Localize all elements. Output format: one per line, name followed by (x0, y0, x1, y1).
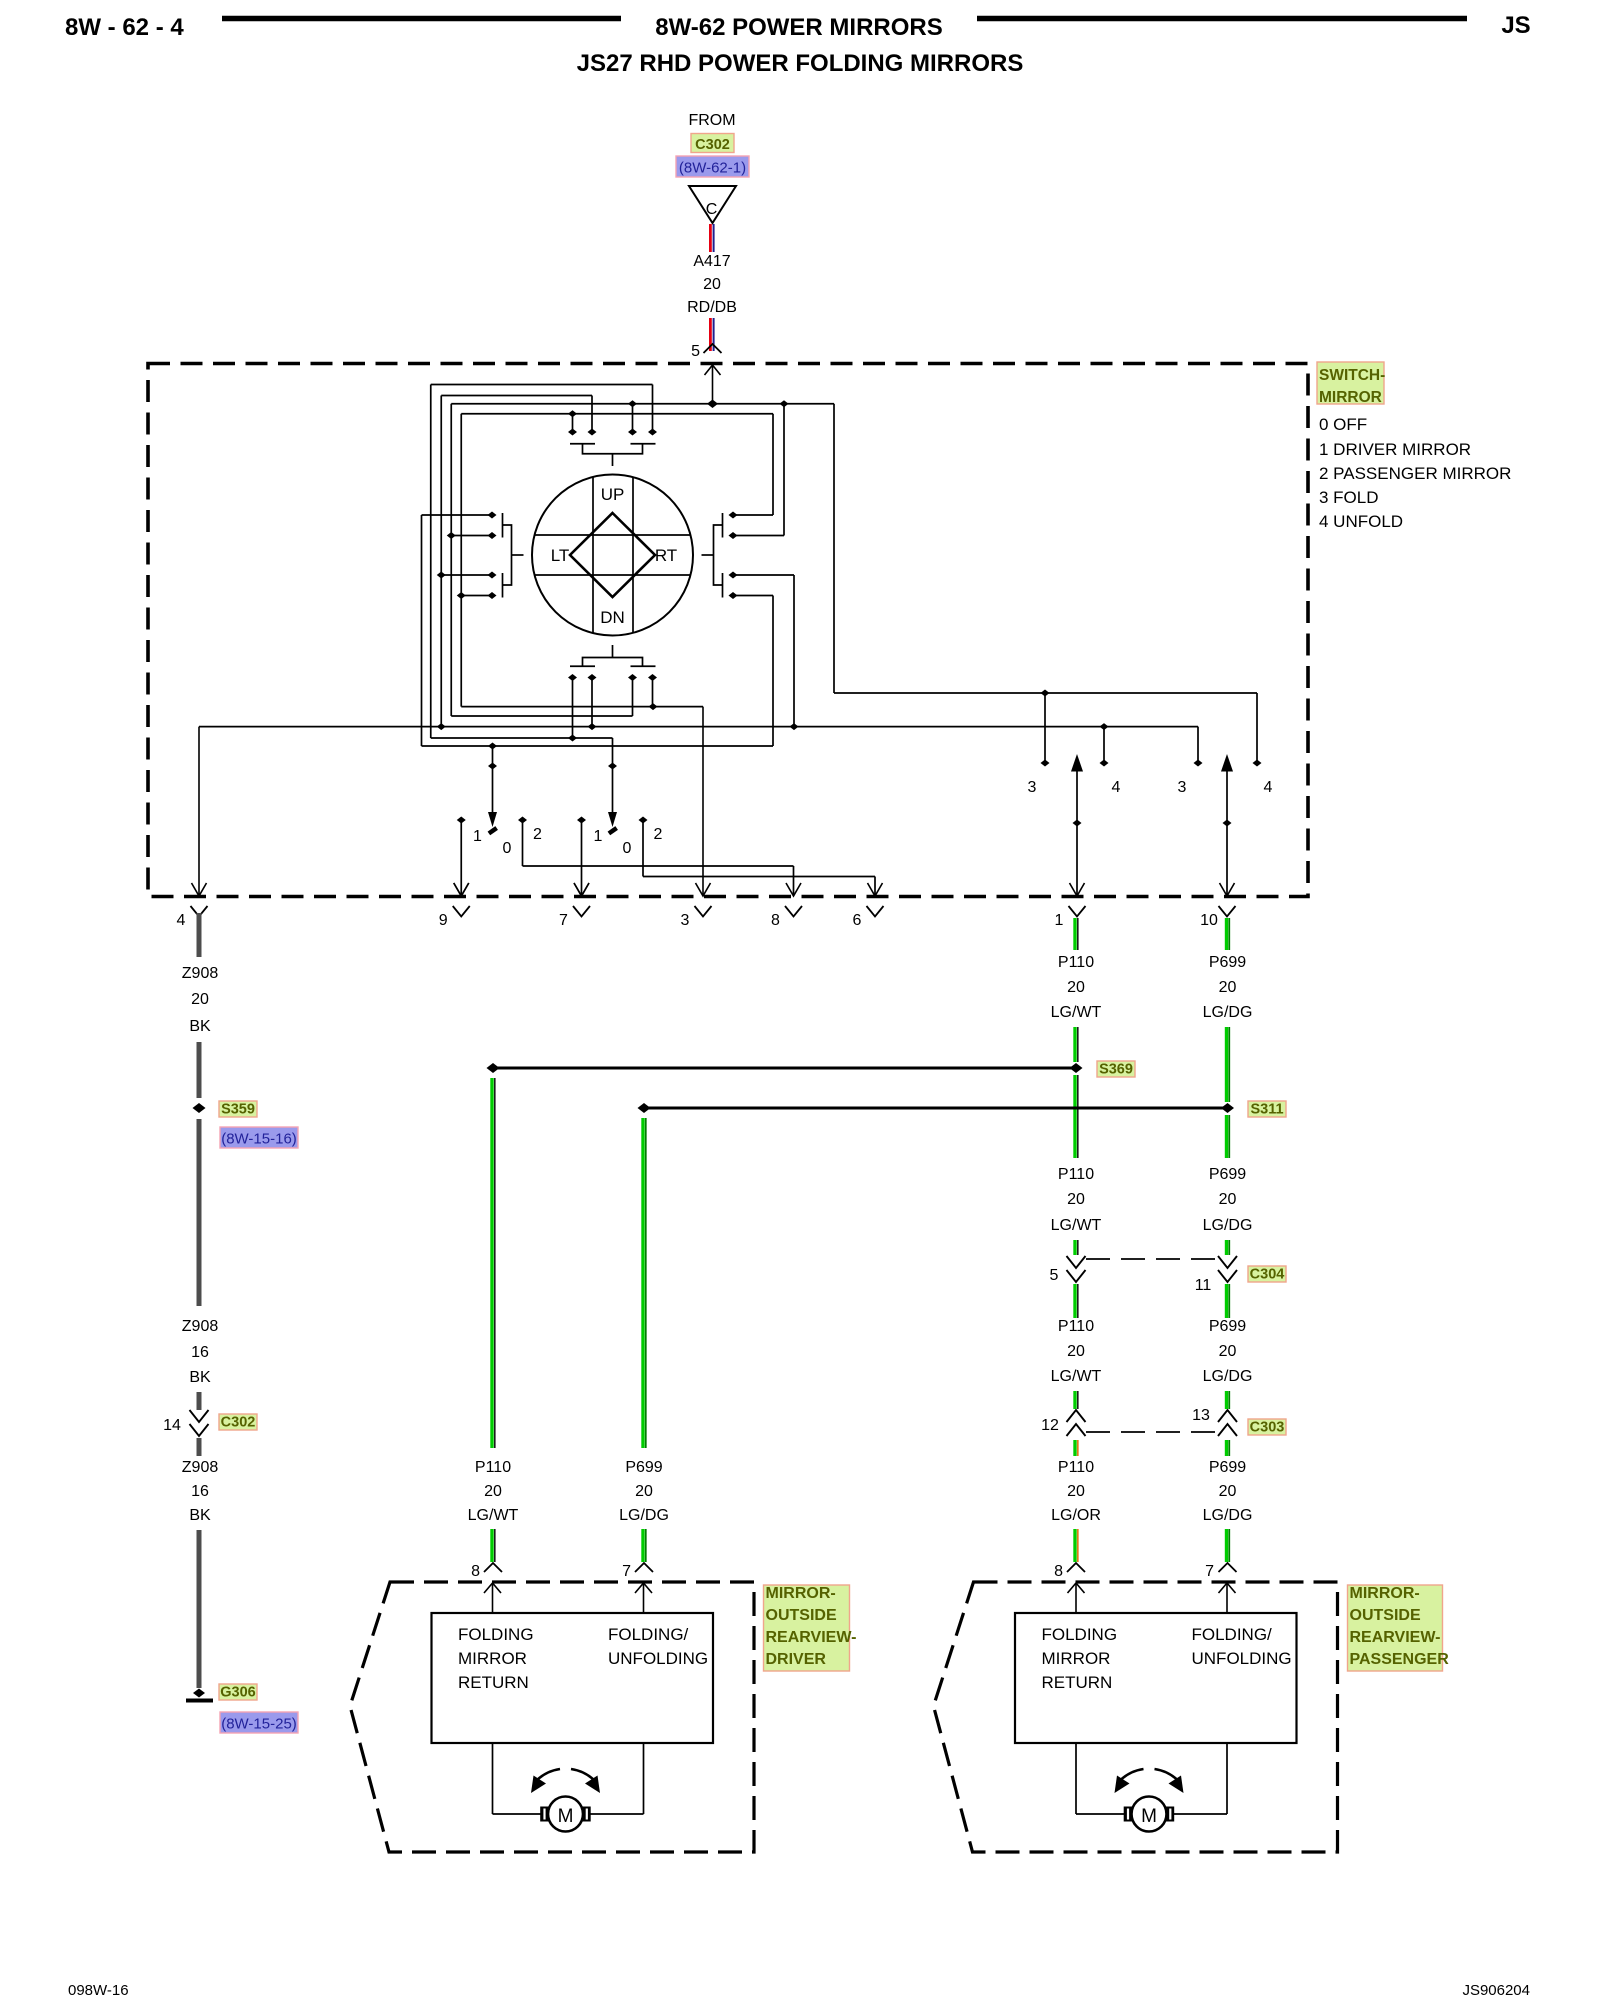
svg-text:LT: LT (551, 546, 570, 565)
wire P699 LG/DG from pin 10 (1225, 918, 1228, 950)
connector C304 pin 5 (1050, 1256, 1086, 1284)
splice bus S311 horizontal (644, 1107, 1228, 1110)
svg-text:S369: S369 (1099, 1062, 1133, 1078)
driver mirror pin 7 connector (622, 1563, 653, 1580)
connector C303 link (1086, 1431, 1218, 1433)
left select contact 2 wire to pin 8 (522, 820, 524, 866)
left select wiper arrow (488, 743, 498, 836)
svg-text:MIRROR-: MIRROR- (1350, 1585, 1420, 1602)
passenger mirror pin 7 connector (1205, 1563, 1236, 1580)
splice S369 branch node (487, 1063, 500, 1073)
wire Z908 16 BK segment 5 (197, 1438, 202, 1456)
fold contact 3 stub A (1044, 693, 1046, 762)
switch pin 6 connector (853, 906, 884, 929)
svg-text:16: 16 (191, 1344, 209, 1361)
wire P110 LG/WT segment 6 (1073, 1391, 1076, 1409)
svg-text:LG/DG: LG/DG (1203, 1507, 1253, 1524)
wire RT vertical upper (772, 414, 774, 515)
svg-text:20: 20 (635, 1483, 653, 1500)
wire RT vertical lower (772, 596, 774, 747)
svg-text:LG/DG: LG/DG (1203, 1004, 1253, 1021)
wire P699 LG/DG lower segment (1225, 1529, 1228, 1562)
wire bus C top (451, 403, 834, 405)
left select contact 1 / pin 9 wire (460, 820, 462, 896)
svg-text:2: 2 (533, 826, 542, 843)
driver mirror pin 8 connector (471, 1563, 502, 1580)
wire fold bus from bus C (833, 404, 835, 693)
wire P699 LG/DG segment 6 (1225, 1391, 1228, 1409)
svg-text:20: 20 (703, 276, 721, 293)
svg-text:20: 20 (1067, 1483, 1085, 1500)
wire Z908 16 BK segment 3 (197, 1119, 202, 1306)
splice S359 (193, 1103, 206, 1113)
fold position labels 3 4 3 4 (1028, 779, 1273, 796)
passenger motor supply wires (1076, 1743, 1227, 1814)
DN contact actuator and gate bars (570, 645, 656, 666)
splice label S359 (219, 1101, 257, 1117)
svg-text:9: 9 (439, 912, 448, 929)
svg-text:BK: BK (189, 1369, 211, 1386)
wire Z908 20 BK segment 2 (197, 1042, 202, 1098)
wire H5 (422, 745, 774, 747)
svg-text:BK: BK (189, 1018, 211, 1035)
splice bus S369 horizontal (493, 1067, 1076, 1070)
splice label S311 (1248, 1101, 1286, 1117)
svg-text:C304: C304 (1250, 1267, 1285, 1283)
pin 4 exit arrow (198, 727, 200, 896)
svg-text:P699: P699 (1209, 1318, 1246, 1335)
wire P110 LG/WT segment 3 (1073, 1075, 1076, 1158)
svg-text:LG/OR: LG/OR (1051, 1507, 1101, 1524)
wire P110 LG/WT driver lower segment (490, 1529, 493, 1562)
wire P110 LG/OR segment (1073, 1440, 1076, 1456)
svg-text:7: 7 (1205, 1563, 1214, 1580)
switch contact DN stub 4 (652, 676, 654, 707)
passenger folding module box (1015, 1613, 1297, 1743)
svg-text:4: 4 (1264, 779, 1273, 796)
svg-text:20: 20 (1067, 1191, 1085, 1208)
svg-text:8: 8 (471, 1563, 480, 1580)
driver mirror pin 7 entry arrow (643, 1583, 645, 1613)
fold wiper arrow pin 1 (1071, 754, 1083, 897)
svg-text:098W-16: 098W-16 (68, 1982, 129, 1999)
switch contact DN stub 3 (632, 676, 634, 716)
svg-text:MIRROR: MIRROR (1042, 1649, 1111, 1668)
svg-text:M: M (558, 1806, 574, 1827)
wire P110 LG/WT segment 2 (1073, 1027, 1076, 1062)
svg-text:5: 5 (1050, 1267, 1059, 1284)
svg-text:FOLDING/: FOLDING/ (1192, 1625, 1273, 1644)
wire RT vertical to H3 (793, 575, 795, 727)
svg-text:S359: S359 (221, 1102, 255, 1118)
switch contact UP stub 2 (591, 396, 593, 434)
knob diamond (570, 513, 655, 597)
passenger mirror pin 8 entry arrow (1075, 1583, 1077, 1613)
svg-text:FOLDING: FOLDING (458, 1625, 534, 1644)
wire bus B left vertical (440, 396, 442, 727)
svg-text:1: 1 (1055, 912, 1064, 929)
wire bus D top (461, 413, 773, 415)
wire H3 to pin 4 (199, 726, 1198, 728)
svg-text:1: 1 (473, 828, 482, 845)
fold wiper arrow pin 10 (1221, 754, 1233, 897)
passenger module text FOLDING/UNFOLDING (1192, 1625, 1292, 1668)
svg-text:20: 20 (1219, 1343, 1237, 1360)
svg-text:20: 20 (1219, 1483, 1237, 1500)
switch contact RT stub 1 (733, 514, 773, 516)
svg-text:REARVIEW-: REARVIEW- (766, 1629, 857, 1646)
svg-text:BK: BK (189, 1507, 211, 1524)
switch pin 1 connector (1055, 906, 1086, 929)
svg-text:RT: RT (655, 546, 677, 565)
switch contact RT stub 3 (733, 574, 794, 576)
switch pin 9 connector (439, 906, 470, 929)
wire RT vertical to bus C (783, 404, 785, 536)
motor M driver (540, 1797, 591, 1832)
page header rule left (222, 16, 621, 22)
connector C304 pin 11 (1195, 1256, 1237, 1294)
wire A417 RD/DB lower segment (709, 318, 712, 351)
svg-text:20: 20 (484, 1483, 502, 1500)
svg-text:3: 3 (1178, 779, 1187, 796)
wire P699 LG/DG segment 2 (1225, 1027, 1228, 1102)
svg-text:M: M (1141, 1806, 1157, 1827)
svg-text:C302: C302 (221, 1415, 256, 1431)
svg-text:8W - 62 - 4: 8W - 62 - 4 (65, 14, 184, 41)
wire Z908 20 BK segment 1 (197, 913, 202, 957)
wire label Z908 16 BK upper (182, 1318, 219, 1386)
RT contact gate bars and actuator (702, 513, 723, 598)
svg-text:0: 0 (503, 840, 512, 857)
switch contact RT stub 2 (733, 535, 784, 537)
svg-text:20: 20 (1067, 1343, 1085, 1360)
connector C303 pin 12 (1041, 1410, 1085, 1436)
svg-text:LG/WT: LG/WT (468, 1507, 519, 1524)
svg-text:RD/DB: RD/DB (687, 299, 737, 316)
switch knob circle (532, 475, 693, 636)
svg-text:C: C (706, 201, 718, 218)
wire bus C left vertical (450, 404, 452, 716)
svg-text:1: 1 (594, 828, 603, 845)
svg-text:P699: P699 (625, 1459, 662, 1476)
node junction on bus C at pin5 feed (707, 400, 718, 409)
ground label G306 (219, 1684, 257, 1700)
pin 5 entry arrow into switch (712, 365, 714, 404)
svg-text:(8W-15-16): (8W-15-16) (221, 1131, 297, 1148)
connector C304 link (1086, 1258, 1218, 1260)
page reference (8W-15-25) (220, 1712, 298, 1733)
svg-text:OUTSIDE: OUTSIDE (766, 1607, 837, 1624)
wire H2 (451, 715, 632, 717)
pin 3 exit arrow (702, 707, 704, 896)
switch-mirror dashed housing box (148, 364, 1308, 897)
svg-text:RETURN: RETURN (458, 1673, 529, 1692)
svg-text:20: 20 (191, 991, 209, 1008)
svg-text:4 UNFOLD: 4 UNFOLD (1319, 512, 1403, 531)
svg-text:A417: A417 (693, 253, 730, 270)
switch contact UP stub 4 (652, 385, 654, 434)
svg-text:P110: P110 (1058, 1166, 1094, 1183)
mirror-outside-rearview-passenger dashed housing (934, 1582, 1338, 1852)
passenger mirror pin 7 entry arrow (1226, 1583, 1228, 1613)
svg-text:C302: C302 (695, 137, 730, 153)
svg-text:RETURN: RETURN (1042, 1673, 1113, 1692)
wire P110 LG/WT segment 5 (1073, 1284, 1076, 1318)
svg-text:14: 14 (163, 1417, 181, 1434)
component label SWITCH-MIRROR (1317, 362, 1385, 406)
svg-text:4: 4 (1112, 779, 1121, 796)
svg-text:OUTSIDE: OUTSIDE (1350, 1607, 1421, 1624)
svg-text:UNFOLDING: UNFOLDING (1192, 1649, 1292, 1668)
svg-text:UNFOLDING: UNFOLDING (608, 1649, 708, 1668)
wire P699 LG/DG segment 7 (1225, 1440, 1228, 1456)
svg-text:UP: UP (601, 485, 625, 504)
svg-text:Z908: Z908 (182, 1318, 219, 1335)
switch contact DN stub 2 (591, 676, 593, 727)
wire Z908 16 BK segment 4 (197, 1392, 202, 1410)
wire label A417 20 RD/DB (687, 253, 737, 316)
svg-text:P110: P110 (1058, 1459, 1094, 1476)
connector label C302 (top) (691, 134, 734, 153)
svg-text:PASSENGER: PASSENGER (1350, 1651, 1450, 1668)
svg-text:12: 12 (1041, 1417, 1059, 1434)
wire H4 (431, 737, 613, 739)
page reference (8W-62-1) (676, 156, 749, 177)
svg-text:DN: DN (600, 608, 625, 627)
splice S311 (1221, 1103, 1234, 1113)
svg-text:SWITCH-: SWITCH- (1319, 367, 1385, 384)
pin 7 exit arrowhead (574, 883, 589, 896)
connector label C304 (1248, 1266, 1286, 1282)
svg-text:20: 20 (1219, 1191, 1237, 1208)
svg-text:11: 11 (1195, 1277, 1212, 1294)
svg-text:FOLDING: FOLDING (1042, 1625, 1118, 1644)
page header rule right (977, 16, 1467, 22)
wire P699 LG/DG segment 5 (1225, 1284, 1228, 1318)
wire LT common vertical (421, 515, 423, 746)
svg-text:5: 5 (691, 343, 700, 360)
svg-text:2 PASSENGER MIRROR: 2 PASSENGER MIRROR (1319, 464, 1511, 483)
svg-text:LG/WT: LG/WT (1051, 1368, 1102, 1385)
page reference (8W-15-16) (220, 1127, 298, 1148)
svg-text:LG/DG: LG/DG (619, 1507, 669, 1524)
wire H1 to pin 3 (461, 706, 703, 708)
passenger module text FOLDING MIRROR RETURN (1042, 1625, 1118, 1692)
svg-text:JS906204: JS906204 (1462, 1982, 1530, 1999)
svg-text:Z908: Z908 (182, 1459, 219, 1476)
switch contact LT stub 2 (451, 535, 492, 537)
passenger mirror pin 8 connector (1054, 1563, 1085, 1580)
left select position labels 1 0 2 (473, 826, 542, 857)
wire P699 LG/DG driver branch (641, 1118, 644, 1448)
ground G306 symbol (186, 1689, 213, 1701)
driver folding module box (432, 1613, 714, 1743)
knob guide channels (535, 477, 691, 633)
connector C303 pin 13 (1192, 1407, 1237, 1436)
svg-text:DRIVER: DRIVER (766, 1651, 827, 1668)
svg-text:LG/WT: LG/WT (1051, 1004, 1102, 1021)
motor M passenger (1124, 1797, 1175, 1832)
component label MIRROR-OUTSIDE REARVIEW-PASSENGER (1348, 1585, 1450, 1671)
right select wiper arrow (608, 738, 618, 835)
switch pin 3 connector (681, 906, 712, 929)
switch contact LT stub 3 (441, 574, 492, 576)
svg-text:P699: P699 (1209, 1459, 1246, 1476)
pin 9 exit arrowhead (454, 883, 469, 896)
LT contact gate bars and actuator (503, 513, 524, 598)
svg-text:LG/DG: LG/DG (1203, 1217, 1253, 1234)
pin 10 exit arrowhead (1220, 883, 1235, 896)
wire P110 LG/WT driver branch (490, 1078, 493, 1448)
svg-text:C303: C303 (1250, 1420, 1285, 1436)
svg-text:3: 3 (681, 912, 690, 929)
switch pin 10 connector (1200, 906, 1235, 929)
svg-text:4: 4 (177, 912, 186, 929)
svg-text:7: 7 (622, 1563, 631, 1580)
svg-text:20: 20 (1219, 979, 1237, 996)
UP contact gate bars and actuator (570, 444, 656, 466)
wire bus B top (441, 395, 592, 397)
switch contact RT stub 4 (733, 595, 773, 597)
switch contact LT stub 4 (461, 595, 492, 597)
wire label Z908 20 BK (182, 965, 219, 1035)
right select contact 2 wire to pin 6 (642, 820, 644, 877)
splice label S369 (1097, 1061, 1135, 1077)
switch contact LT stub 1 (422, 514, 493, 516)
wire Z908 16 BK segment 6 (197, 1530, 202, 1688)
driver module text FOLDING MIRROR RETURN (458, 1625, 534, 1692)
driver motor rotation arrows (531, 1769, 600, 1793)
svg-text:REARVIEW-: REARVIEW- (1350, 1629, 1441, 1646)
svg-text:(8W-62-1): (8W-62-1) (679, 160, 746, 177)
wire P699 LG/DG segment 4 (1225, 1240, 1228, 1255)
svg-text:8W-62 POWER MIRRORS: 8W-62 POWER MIRRORS (655, 14, 943, 41)
wire A417 RD/DB upper segment (709, 224, 712, 252)
switch contact UP stub 3 (632, 404, 634, 434)
svg-text:0: 0 (623, 840, 632, 857)
mirror-outside-rearview-driver dashed housing (350, 1582, 754, 1852)
svg-text:S311: S311 (1250, 1102, 1283, 1118)
right select position labels 1 0 2 (594, 826, 663, 857)
svg-text:20: 20 (1067, 979, 1085, 996)
svg-text:8: 8 (1054, 1563, 1063, 1580)
svg-text:FROM: FROM (688, 112, 735, 129)
switch pin 4 connector (177, 906, 208, 929)
svg-text:P110: P110 (1058, 1318, 1094, 1335)
svg-text:8: 8 (771, 912, 780, 929)
svg-text:P110: P110 (475, 1459, 511, 1476)
off-page connector triangle C (689, 186, 736, 223)
svg-text:JS: JS (1501, 12, 1530, 39)
right select contact 1 / pin 7 wire (581, 820, 583, 896)
driver module text FOLDING/UNFOLDING (608, 1625, 708, 1668)
wire label Z908 16 BK lower (182, 1459, 219, 1524)
fold contact 4 stub A (1103, 727, 1105, 762)
wire P110 LG/OR lower segment (1073, 1529, 1076, 1562)
svg-text:LG/DG: LG/DG (1203, 1368, 1253, 1385)
wire P110 LG/WT segment 4 (1073, 1240, 1076, 1255)
wire P699 LG/DG segment 3 (1225, 1115, 1228, 1158)
pin 5 of mirror switch (691, 343, 721, 360)
switch pin 7 connector (559, 906, 590, 929)
wire bus A left vertical (430, 385, 432, 739)
svg-text:7: 7 (559, 912, 568, 929)
svg-text:0 OFF: 0 OFF (1319, 415, 1367, 434)
svg-text:P699: P699 (1209, 954, 1246, 971)
connector label C302 (219, 1414, 257, 1430)
svg-text:P699: P699 (1209, 1166, 1246, 1183)
wire P110 LG/WT from pin 1 (1073, 918, 1076, 950)
svg-text:2: 2 (654, 826, 663, 843)
wire P699 LG/DG driver lower segment (641, 1529, 644, 1562)
svg-text:MIRROR: MIRROR (1319, 389, 1382, 406)
connector label C303 (1248, 1419, 1286, 1435)
switch position legend (1319, 415, 1511, 531)
connector C302 pin 14 (163, 1410, 208, 1436)
component label MIRROR-OUTSIDE REARVIEW-DRIVER (764, 1585, 857, 1671)
driver motor supply wires (493, 1743, 644, 1814)
svg-text:16: 16 (191, 1483, 209, 1500)
fold contact 4 stub B (1256, 693, 1258, 762)
svg-text:3 FOLD: 3 FOLD (1319, 488, 1379, 507)
pin 1 exit arrowhead (1070, 883, 1085, 896)
svg-text:1 DRIVER MIRROR: 1 DRIVER MIRROR (1319, 440, 1471, 459)
splice S311 branch node (638, 1103, 651, 1113)
svg-text:Z908: Z908 (182, 965, 219, 982)
fold contact 3 stub B (1197, 727, 1199, 762)
svg-text:(8W-15-25): (8W-15-25) (221, 1716, 297, 1733)
wire bus A top (431, 384, 653, 386)
driver mirror pin 8 entry arrow (492, 1583, 494, 1613)
switch pin 8 connector (771, 906, 802, 929)
splice S369 (1070, 1063, 1083, 1073)
svg-text:LG/WT: LG/WT (1051, 1217, 1102, 1234)
svg-text:13: 13 (1192, 1407, 1210, 1424)
passenger motor rotation arrows (1115, 1769, 1184, 1793)
svg-text:10: 10 (1200, 912, 1218, 929)
junction on H3 at bus B (437, 723, 446, 730)
svg-text:6: 6 (853, 912, 862, 929)
svg-text:MIRROR-: MIRROR- (766, 1585, 836, 1602)
svg-text:FOLDING/: FOLDING/ (608, 1625, 689, 1644)
wire bus D left vertical (460, 414, 462, 707)
svg-text:JS27 RHD POWER FOLDING MIRRORS: JS27 RHD POWER FOLDING MIRRORS (577, 50, 1024, 77)
switch contact DN stub 1 (572, 676, 574, 738)
svg-text:P110: P110 (1058, 954, 1094, 971)
svg-text:MIRROR: MIRROR (458, 1649, 527, 1668)
switch contact UP stub 1 (572, 414, 574, 434)
svg-text:3: 3 (1028, 779, 1037, 796)
svg-text:G306: G306 (220, 1685, 255, 1701)
